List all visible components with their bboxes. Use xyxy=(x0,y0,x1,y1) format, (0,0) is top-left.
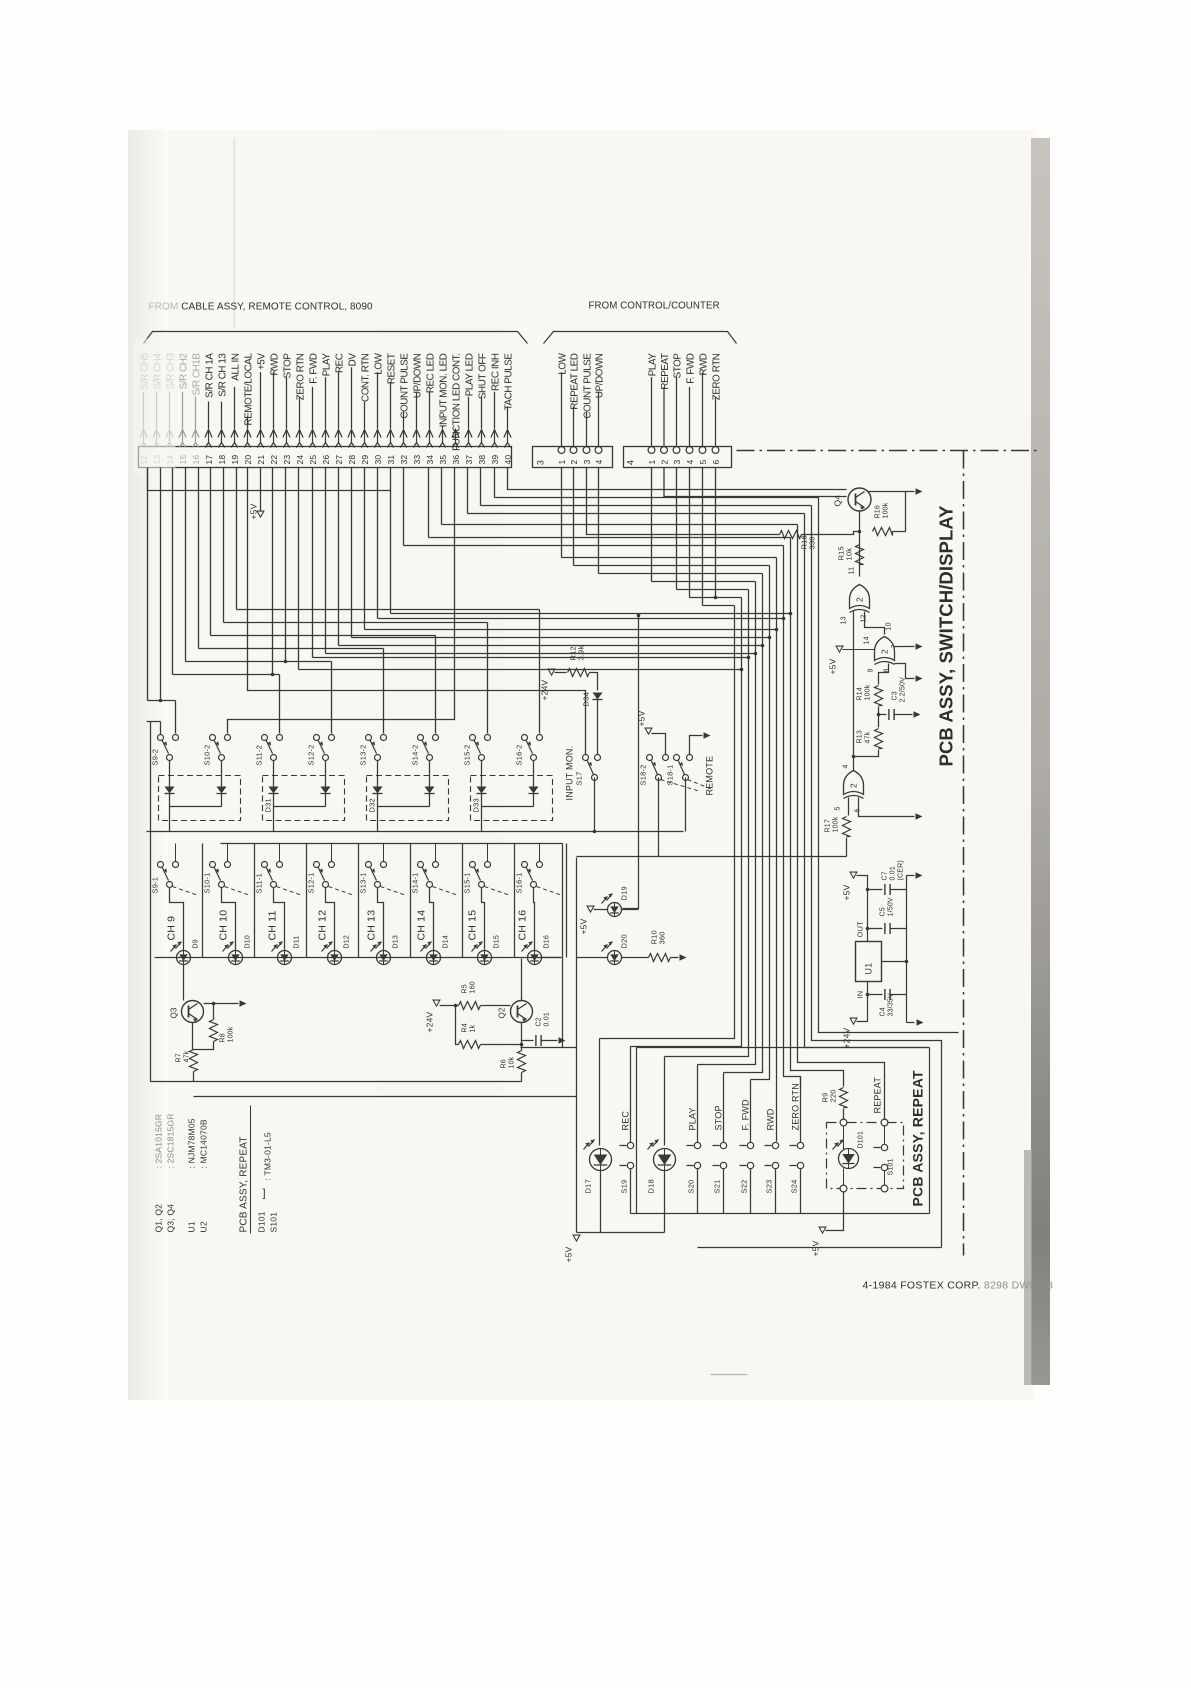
mech link S13-1 dashed xyxy=(381,887,407,896)
svg-text:+5V: +5V xyxy=(249,503,259,519)
wire S9-1 contact stub xyxy=(175,844,177,862)
pin 25 entry xyxy=(312,431,314,443)
pin 12 entry xyxy=(143,431,145,443)
svg-text:4: 4 xyxy=(685,460,695,465)
wire xyxy=(210,468,212,636)
wire +24V down to R4 xyxy=(456,1006,459,1045)
wire bundle xyxy=(805,514,930,1048)
switch S22 xyxy=(750,1080,752,1143)
svg-text:RWD: RWD xyxy=(766,1108,776,1130)
switch S24 xyxy=(800,1077,802,1143)
svg-text:47k: 47k xyxy=(184,1050,191,1062)
pin 30 wire xyxy=(377,372,379,428)
svg-text:S11-2: S11-2 xyxy=(255,745,264,765)
wire xyxy=(351,468,353,638)
wire bottom arrow xyxy=(907,1022,915,1024)
wire xyxy=(676,468,678,590)
power +5V D17 D18 xyxy=(573,1235,580,1241)
svg-text:0.01: 0.01 xyxy=(890,866,897,880)
wire loop right S10-1 xyxy=(254,844,256,958)
diode D34 xyxy=(593,693,603,700)
pin 23 wire xyxy=(286,377,288,428)
svg-text:CH 10: CH 10 xyxy=(218,910,230,941)
wire C7 branch xyxy=(868,889,883,891)
svg-text:PCB ASSY, SWITCH/DISPLAY: PCB ASSY, SWITCH/DISPLAY xyxy=(936,505,957,767)
capacitor C7 xyxy=(884,884,886,895)
pin 35 arrowhead xyxy=(439,430,446,438)
wire pin23 drop xyxy=(285,468,287,662)
switch S16-2 xyxy=(522,735,528,741)
power +24V Q2 xyxy=(433,1000,440,1006)
wire S22 to bus xyxy=(750,1169,752,1214)
svg-text:REC LED: REC LED xyxy=(425,353,436,393)
diode in box at x=429 xyxy=(425,787,435,794)
wire CH9 to Q3 xyxy=(155,957,177,959)
wire Q4 base from connector 4 pin 2 xyxy=(664,468,847,497)
mech link S12-1 dashed xyxy=(329,887,355,896)
wire +5V to S18-2 contact xyxy=(652,734,666,755)
resistor R6 xyxy=(518,1051,526,1073)
pin 16 wire xyxy=(195,397,197,429)
svg-text:34: 34 xyxy=(425,455,435,465)
svg-text:2: 2 xyxy=(569,460,579,465)
svg-text:27: 27 xyxy=(334,455,344,465)
connector 3 pin 3 wire xyxy=(586,411,588,446)
svg-text:SHUT OFF: SHUT OFF xyxy=(477,353,488,399)
svg-text:LOW: LOW xyxy=(557,352,568,374)
diode box D32 xyxy=(367,776,449,821)
svg-text:100k: 100k xyxy=(228,1026,235,1042)
pin 19 arrowhead xyxy=(231,430,238,438)
wire Q3 to R8 xyxy=(213,1004,215,1020)
PCB ASSY SWITCH/DISPLAY border top xyxy=(737,450,1041,452)
wire xyxy=(573,468,575,566)
pin 15 wire xyxy=(182,392,184,429)
svg-text:35: 35 xyxy=(438,455,448,465)
pin 22 arrowhead xyxy=(270,430,277,438)
svg-text:19: 19 xyxy=(230,455,240,465)
PCB ASSY SWITCH/DISPLAY border right xyxy=(963,451,965,1256)
connector 4 body xyxy=(624,447,732,468)
svg-text:COUNT PULSE: COUNT PULSE xyxy=(582,353,593,419)
pin 32 wire xyxy=(403,411,405,428)
svg-text:39: 39 xyxy=(490,455,500,465)
wire loop S12-1 xyxy=(326,888,335,951)
mech link S10-1 dashed xyxy=(225,887,251,896)
svg-text:S/R CH2: S/R CH2 xyxy=(178,354,189,390)
connector 4 pin 2 wire xyxy=(663,387,665,447)
svg-text:+5V: +5V xyxy=(564,1246,574,1262)
wire bundle xyxy=(724,574,763,1073)
svg-text:ZERO RTN: ZERO RTN xyxy=(791,1083,801,1130)
wire +5V to D101 xyxy=(826,1192,844,1231)
svg-text:S13-1: S13-1 xyxy=(359,872,368,893)
wire loop S9-1 xyxy=(170,888,184,951)
switch S12-1 xyxy=(314,862,320,868)
connector 3 body xyxy=(533,447,613,468)
wire frame right edge xyxy=(562,844,564,1048)
wire xyxy=(428,468,430,538)
resistor R4 xyxy=(459,1041,481,1049)
switch S18-2 xyxy=(647,755,653,761)
svg-text:R14: R14 xyxy=(857,687,864,700)
svg-text:38: 38 xyxy=(477,455,487,465)
LED D15 CH15 xyxy=(478,951,492,965)
capacitor C3 xyxy=(888,709,890,720)
wire xyxy=(441,468,443,525)
svg-text:FROM CABLE ASSY, REMOTE CONTR: FROM CABLE ASSY, REMOTE CONTROL, 8090 xyxy=(149,302,373,313)
wire loop right S12-1 xyxy=(358,844,360,958)
svg-text:S12-1: S12-1 xyxy=(307,872,316,893)
svg-text:4: 4 xyxy=(626,460,636,465)
diode box D33 xyxy=(471,776,553,821)
pin 13 entry xyxy=(156,431,158,443)
wire D101 top xyxy=(843,1127,845,1150)
pin 17 arrowhead xyxy=(205,430,212,438)
svg-text:REC: REC xyxy=(334,353,345,373)
pin 19 entry xyxy=(234,431,236,443)
wire xyxy=(390,468,392,614)
svg-text:S22: S22 xyxy=(740,1180,749,1194)
svg-text:S12-2: S12-2 xyxy=(307,744,316,765)
svg-text:S9-2: S9-2 xyxy=(151,749,160,766)
svg-text:C5: C5 xyxy=(880,907,887,916)
svg-text:R4: R4 xyxy=(462,1023,469,1032)
pin 39 arrowhead xyxy=(491,430,498,438)
wire S15-2 arm to diode xyxy=(481,761,483,787)
svg-text:R5: R5 xyxy=(462,984,469,993)
pin 12 arrowhead xyxy=(140,430,147,438)
svg-text:IN: IN xyxy=(856,991,865,999)
wire xyxy=(494,468,496,498)
wire R9 to D101 box xyxy=(843,1109,845,1123)
wire S15-1 contact stub xyxy=(487,844,489,862)
svg-text:D9: D9 xyxy=(193,939,200,948)
svg-text:D20: D20 xyxy=(620,934,629,948)
brace under cable assy title xyxy=(144,332,528,344)
gate U2c xyxy=(844,771,864,795)
power +5V U1 xyxy=(850,872,857,878)
LED D11 CH11 xyxy=(278,951,292,965)
wire C5 to rail xyxy=(891,928,907,930)
switch S23 xyxy=(772,1142,778,1148)
svg-text:TACH PULSE: TACH PULSE xyxy=(503,353,514,411)
wire xyxy=(377,468,379,619)
svg-text:F. FWD: F. FWD xyxy=(685,353,696,384)
power +24V U1 xyxy=(850,1018,857,1024)
pin 22 entry xyxy=(273,431,275,443)
svg-text:R8: R8 xyxy=(220,1033,227,1042)
svg-text:10k: 10k xyxy=(845,548,854,561)
wire bundle xyxy=(698,582,756,1065)
svg-text:40: 40 xyxy=(503,455,513,465)
svg-text:D34: D34 xyxy=(582,692,591,706)
svg-text:CH 12: CH 12 xyxy=(317,910,329,941)
svg-text:S18-2: S18-2 xyxy=(639,764,648,785)
svg-text:U1: U1 xyxy=(864,963,874,975)
pin 33 entry xyxy=(416,431,418,443)
svg-text:COUNT PULSE: COUNT PULSE xyxy=(399,353,410,419)
svg-text:S21: S21 xyxy=(713,1180,722,1194)
svg-text:S11-1: S11-1 xyxy=(255,873,264,893)
connector 4 pin 3 wire xyxy=(676,377,678,446)
svg-text:PCB ASSY, REPEAT: PCB ASSY, REPEAT xyxy=(910,1070,926,1206)
LED D101 xyxy=(839,1149,859,1169)
svg-text:S13-2: S13-2 xyxy=(359,744,368,765)
svg-text:: TM3-01-L5: : TM3-01-L5 xyxy=(263,1132,273,1180)
svg-text:R17: R17 xyxy=(825,819,832,832)
wire xyxy=(147,468,149,701)
wire S13-1 contact stub xyxy=(383,844,385,862)
wire bundle xyxy=(819,498,959,1033)
wire D18 down xyxy=(664,1171,666,1233)
bus wire y=831 xyxy=(147,831,684,833)
wire xyxy=(702,468,704,606)
wire +5V stub pin 21 xyxy=(260,468,262,511)
svg-text:: MC14070B: : MC14070B xyxy=(199,1119,209,1168)
wire S10-2 arm to diode xyxy=(221,761,223,787)
pin 25 arrowhead xyxy=(309,430,316,438)
svg-text:S16-1: S16-1 xyxy=(515,872,524,893)
wire diode box to bus xyxy=(481,807,483,832)
svg-text:+24V: +24V xyxy=(540,679,550,700)
pin 15 arrowhead xyxy=(179,430,186,438)
bus wire y=856 xyxy=(577,856,847,858)
power +5V D19 xyxy=(587,906,594,912)
svg-text:0.01: 0.01 xyxy=(544,1012,551,1026)
wire xyxy=(312,468,314,658)
wire pin13 drop xyxy=(160,468,162,701)
wire C5 branch xyxy=(868,928,883,930)
wire loop right S11-1 xyxy=(306,844,308,958)
svg-text:R13: R13 xyxy=(857,730,864,743)
svg-text:F. FWD: F. FWD xyxy=(741,1099,751,1130)
svg-text:REPEAT LED: REPEAT LED xyxy=(569,353,580,409)
svg-text:S101: S101 xyxy=(269,1212,279,1233)
wire gate2 input8 branch arrow xyxy=(895,664,915,679)
wire D101 bottom xyxy=(843,1169,845,1186)
pin 36 entry xyxy=(455,431,457,443)
svg-text:S24: S24 xyxy=(790,1180,799,1194)
pin 34 entry xyxy=(429,431,431,443)
wire gate1 input 12 to gate2 xyxy=(865,612,885,635)
wire S18-2 to bus856 xyxy=(658,778,660,857)
connector 4 pin 4 contact xyxy=(686,447,693,454)
wire C4 to rail xyxy=(891,994,907,996)
wire loop S11-1 xyxy=(274,888,285,951)
wire S16-2 arm to diode xyxy=(533,761,535,787)
wire loop right S14-1 xyxy=(462,844,464,958)
wire D34 to S17 xyxy=(597,700,599,755)
svg-text:S10-1: S10-1 xyxy=(203,872,212,893)
svg-text:Q3: Q3 xyxy=(170,1007,179,1018)
svg-text:32: 32 xyxy=(399,455,409,465)
wire xyxy=(598,468,600,574)
wire +5V to D19 xyxy=(594,909,608,911)
switch S15-2 xyxy=(470,735,476,741)
svg-text:CH 9: CH 9 xyxy=(166,916,178,941)
wire S13-2 arm to diode xyxy=(377,761,379,787)
svg-text:C3: C3 xyxy=(892,691,899,700)
pin 26 arrowhead xyxy=(322,430,329,438)
wire S24 to bus xyxy=(800,1169,802,1214)
wire xyxy=(689,468,691,598)
connector 4 pin 1 wire xyxy=(651,377,653,446)
wire R6 to bus xyxy=(521,1073,523,1082)
svg-text:29: 29 xyxy=(360,455,370,465)
LED D12 CH12 xyxy=(328,951,342,965)
wire LED bus to D20 xyxy=(577,957,608,959)
svg-text:1/50V: 1/50V xyxy=(888,897,895,916)
wire S11-2 arm to diode xyxy=(273,761,275,787)
diode box D30 xyxy=(159,776,241,821)
svg-text:D18: D18 xyxy=(647,1179,656,1193)
svg-text:2: 2 xyxy=(659,460,669,465)
switch S9-2 xyxy=(158,735,164,741)
wire S12-2 arm to diode xyxy=(325,761,327,787)
wire loop right S9-1 xyxy=(202,844,204,958)
svg-text:S14-2: S14-2 xyxy=(411,744,420,765)
svg-text:R16: R16 xyxy=(875,505,882,518)
svg-text:16: 16 xyxy=(191,455,201,465)
wire S18-1 to bus831 xyxy=(685,778,687,832)
svg-text:REMOTE: REMOTE xyxy=(705,756,715,796)
svg-text:100k: 100k xyxy=(883,502,890,518)
pin 34 wire xyxy=(429,392,431,429)
pin 31 arrowhead xyxy=(387,430,394,438)
pin 35 entry xyxy=(442,431,444,443)
wire R12 to D34 xyxy=(590,673,598,691)
right rail wire xyxy=(906,876,908,1023)
connector 3 pin 1 wire xyxy=(561,372,563,446)
svg-text:D14: D14 xyxy=(443,935,450,948)
pin 39 wire xyxy=(494,392,496,429)
LED D10 CH10 xyxy=(229,951,243,965)
wire pin20 to S17 xyxy=(248,468,586,755)
mech link S18 dashed xyxy=(661,780,701,792)
switch S14-1 xyxy=(418,862,424,868)
svg-text:D12: D12 xyxy=(344,935,351,948)
wire xyxy=(185,468,187,662)
resistor R7 xyxy=(190,1050,198,1072)
page crease xyxy=(233,138,236,328)
resistor R16 xyxy=(873,528,893,536)
transistor Q2 xyxy=(511,1001,533,1023)
connector 4 pin 6 wire xyxy=(715,397,717,447)
svg-text:S101: S101 xyxy=(888,1158,895,1175)
switch S21 xyxy=(723,1073,725,1143)
svg-text:FROM CONTROL/COUNTER: FROM CONTROL/COUNTER xyxy=(589,301,720,312)
scan smear over left pins xyxy=(134,339,176,474)
wire bundle xyxy=(784,546,801,1089)
svg-text:C7: C7 xyxy=(882,871,889,880)
wire +5V rail xyxy=(857,876,868,942)
pin 26 entry xyxy=(325,431,327,443)
wire S9-2 top rail xyxy=(160,722,162,735)
switch S9-1 xyxy=(158,862,164,868)
svg-text:ZERO RTN: ZERO RTN xyxy=(295,353,306,400)
resistor R8 xyxy=(210,1020,218,1042)
wire diode box to bus xyxy=(169,807,171,832)
pin 40 wire xyxy=(507,407,509,429)
svg-text:4: 4 xyxy=(843,764,850,768)
svg-text:S14-1: S14-1 xyxy=(411,872,420,893)
wire gate2 output arrow xyxy=(895,646,915,648)
pin 18 arrowhead xyxy=(218,430,225,438)
connector J1 body xyxy=(139,447,512,468)
power +5V for S18 xyxy=(645,728,652,734)
wire +5V to pin 14 xyxy=(843,649,875,651)
pin 25 wire xyxy=(312,387,314,429)
pin 37 entry xyxy=(468,431,470,443)
pin 40 arrowhead xyxy=(504,430,511,438)
wire xyxy=(236,468,238,610)
svg-text:D33: D33 xyxy=(472,798,481,812)
pin 32 arrowhead xyxy=(400,430,407,438)
svg-text:D11: D11 xyxy=(294,936,301,949)
svg-text:CH 11: CH 11 xyxy=(267,911,279,941)
svg-text:D15: D15 xyxy=(494,935,501,948)
svg-text:LOW: LOW xyxy=(373,352,384,374)
pin 34 arrowhead xyxy=(426,430,433,438)
connector 4 pin 4 wire xyxy=(689,387,691,447)
wire to D17 xyxy=(599,1039,601,1146)
wire Q4 emitter node xyxy=(859,511,861,577)
pin 27 wire xyxy=(338,372,340,428)
svg-text:4: 4 xyxy=(594,460,604,465)
mech link S9-1 dashed xyxy=(173,887,199,896)
gate U2b xyxy=(875,637,895,661)
power +24V for R12 xyxy=(548,669,555,675)
wire S14-2 arm to diode xyxy=(429,761,431,787)
wire loop right S15-1 xyxy=(514,844,516,958)
wire S10-1 contact stub xyxy=(227,844,229,862)
resistor R18 xyxy=(780,531,802,539)
outer bottom wire xyxy=(698,1247,942,1249)
wire R18 to Q4 node xyxy=(802,532,860,535)
wire xyxy=(223,468,225,623)
svg-text:4-1984 FOSTEX CORP. 8298 DWN: 4-1984 FOSTEX CORP. 8298 DWN 88 xyxy=(863,1280,1054,1292)
svg-text:33/35V: 33/35V xyxy=(888,993,895,1017)
wire loop S15-1 xyxy=(482,888,485,951)
svg-text:17: 17 xyxy=(204,455,214,465)
svg-text:2.2/50V: 2.2/50V xyxy=(900,677,907,703)
connector 3 pin 3 contact xyxy=(583,447,590,454)
pin 16 entry xyxy=(195,431,197,443)
wire diode pair join xyxy=(170,806,222,808)
wire Q2 collector to LED bus xyxy=(521,959,523,1001)
wire R8 to R7 xyxy=(194,1042,214,1050)
pin 21 wire xyxy=(260,372,262,428)
svg-text:CH 16: CH 16 xyxy=(517,910,529,941)
svg-text:S10-2: S10-2 xyxy=(203,744,212,765)
regulator U1 xyxy=(856,942,882,982)
wire bundle xyxy=(776,558,778,1142)
wire xyxy=(403,468,405,546)
pin 12 wire xyxy=(143,392,145,429)
svg-text:220: 220 xyxy=(829,1089,838,1102)
svg-text:22: 22 xyxy=(269,455,279,465)
svg-text:R7: R7 xyxy=(176,1053,183,1062)
svg-text:36: 36 xyxy=(451,455,461,465)
wire R7 to bus xyxy=(193,1072,195,1082)
capacitor C4 xyxy=(884,989,886,1000)
D101 dash-dot box xyxy=(827,1123,904,1189)
pin 17 wire xyxy=(208,402,210,429)
wire pin40 to Q4 collector line xyxy=(508,468,847,490)
pin 40 entry xyxy=(507,431,509,443)
wire U1 right pin xyxy=(882,961,907,963)
